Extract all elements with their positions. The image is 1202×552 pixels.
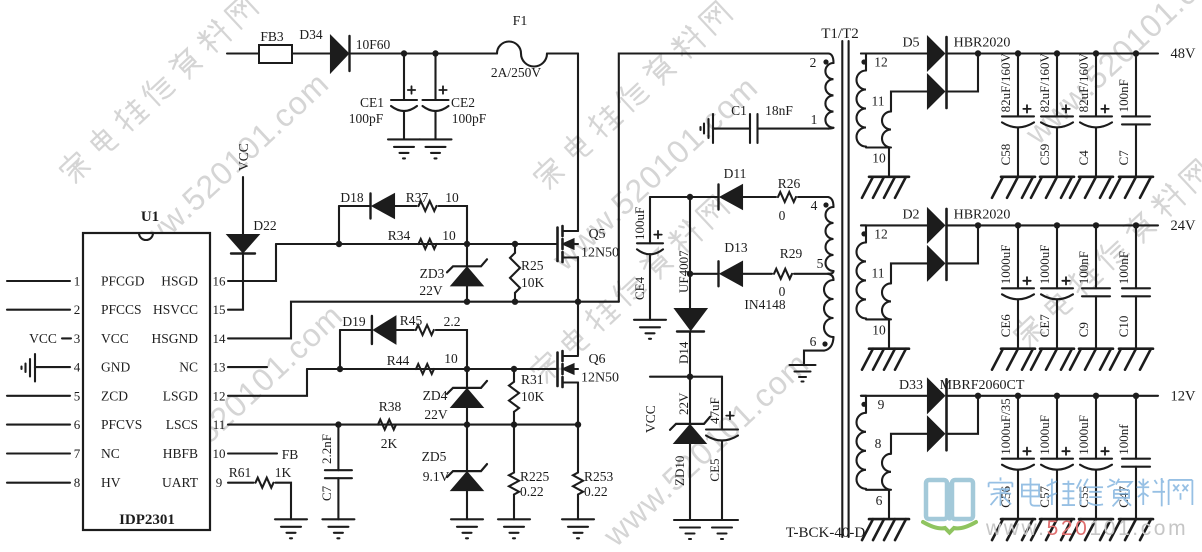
ground below CE1 — [388, 138, 420, 140]
ground below C56 — [1001, 518, 1035, 521]
svg-text:UF4007: UF4007 — [676, 250, 691, 293]
capacitor C7 100nF — [1133, 50, 1139, 56]
capacitor CE4 100uF — [650, 196, 690, 198]
svg-text:48V: 48V — [1171, 46, 1197, 62]
capacitor C47 100nf — [1133, 393, 1139, 399]
diode D19 — [371, 316, 373, 344]
svg-text:10K: 10K — [521, 275, 545, 290]
svg-text:CE4: CE4 — [632, 276, 647, 300]
svg-text:12N50: 12N50 — [581, 371, 619, 386]
wire C1 to ground — [713, 128, 750, 130]
svg-text:1000uF: 1000uF — [1037, 245, 1052, 285]
svg-text:100nF: 100nF — [1116, 251, 1131, 284]
svg-text:HSVCC: HSVCC — [153, 302, 198, 317]
svg-text:LSGD: LSGD — [163, 388, 199, 403]
node D18 branch — [336, 241, 342, 247]
svg-text:0: 0 — [779, 208, 786, 223]
svg-text:100pF: 100pF — [452, 111, 487, 126]
ground below CE5 — [706, 519, 738, 521]
wire Q6 drain to switch node — [577, 302, 579, 355]
wire stub pin 7 — [7, 452, 70, 454]
svg-text:22V: 22V — [419, 283, 443, 298]
wire secondary pin 10 to ground — [888, 148, 890, 177]
svg-text:1000uF: 1000uF — [998, 245, 1013, 285]
ground below C4 — [1079, 176, 1113, 179]
svg-text:18nF: 18nF — [765, 103, 793, 118]
zener ZD4 22V — [466, 369, 468, 388]
transistor Q5 12N50 — [556, 228, 559, 262]
svg-text:2.2nF: 2.2nF — [319, 434, 334, 464]
svg-text:2K: 2K — [381, 436, 398, 451]
svg-text:100uF: 100uF — [632, 207, 647, 240]
wire AC input to FB3 — [227, 52, 259, 54]
svg-text:HSGD: HSGD — [161, 274, 198, 289]
svg-text:D19: D19 — [342, 314, 365, 329]
svg-text:12: 12 — [874, 226, 888, 241]
capacitor C9 100nF — [1093, 222, 1099, 228]
svg-text:U1: U1 — [141, 209, 159, 225]
node secondary pin 9 phase dot — [861, 402, 866, 407]
svg-text:10: 10 — [872, 151, 886, 166]
svg-text:1000uF/35: 1000uF/35 — [998, 398, 1013, 454]
node Q6 source sense — [575, 421, 581, 427]
svg-text:15: 15 — [213, 302, 226, 317]
svg-text:R34: R34 — [388, 228, 411, 243]
svg-text:4: 4 — [811, 198, 818, 213]
svg-text:PFCCS: PFCCS — [101, 302, 142, 317]
svg-text:R31: R31 — [521, 372, 544, 387]
svg-text:D11: D11 — [724, 166, 747, 181]
svg-text:NC: NC — [101, 446, 120, 461]
capacitor C57 1000uF — [1054, 393, 1060, 399]
svg-text:R45: R45 — [400, 313, 423, 328]
wire R37 to corner — [439, 206, 468, 244]
svg-text:11: 11 — [872, 265, 885, 280]
svg-text:R26: R26 — [778, 176, 801, 191]
ground below ZD5 — [451, 518, 483, 520]
svg-text:R225: R225 — [520, 469, 550, 484]
svg-text:C10: C10 — [1116, 316, 1131, 338]
diode D14 UF4007 — [676, 309, 707, 330]
wire 12V output rail — [947, 395, 1159, 397]
capacitor CE1 100pF — [403, 54, 405, 101]
svg-text:1000uF: 1000uF — [1076, 415, 1091, 455]
node primary pin 6 phase dot — [822, 341, 827, 346]
svg-text:R44: R44 — [387, 353, 410, 368]
zener ZD10 22V — [689, 377, 691, 424]
svg-text:22V: 22V — [676, 392, 691, 415]
capacitor CE7 1000uF — [1054, 222, 1060, 228]
resistor R29 0 — [774, 269, 792, 279]
capacitor C56 1000uF/35 — [1015, 393, 1021, 399]
svg-text:100nF: 100nF — [1116, 79, 1131, 112]
svg-text:3: 3 — [74, 331, 81, 346]
svg-text:10: 10 — [442, 228, 456, 243]
node VCC junction — [687, 374, 693, 380]
ground below secondary winding — [869, 347, 909, 350]
svg-text:Q6: Q6 — [588, 352, 605, 367]
wire F1 to Q5 drain — [547, 52, 578, 54]
svg-text:CE6: CE6 — [998, 314, 1013, 338]
ground below R225 — [498, 518, 530, 520]
node ZD5 top — [464, 421, 470, 427]
svg-text:UART: UART — [162, 475, 199, 490]
node primary pin 2 phase dot — [823, 59, 828, 64]
wire secondary pin 10 to ground — [888, 319, 890, 348]
resistor R34 10 — [419, 239, 437, 249]
svg-text:12: 12 — [213, 388, 226, 403]
svg-text:2A/250V: 2A/250V — [491, 65, 542, 80]
svg-text:D2: D2 — [902, 207, 919, 222]
ground below ZD10 — [674, 519, 706, 521]
svg-text:10F60: 10F60 — [356, 37, 391, 52]
wire ground to pin 4 — [35, 366, 70, 368]
svg-text:GND: GND — [101, 360, 130, 375]
svg-text:PFCGD: PFCGD — [101, 274, 145, 289]
ground below secondary winding — [869, 518, 909, 521]
diode D34 10F60 — [331, 37, 348, 72]
svg-text:100nF: 100nF — [1076, 251, 1091, 284]
wire stub pin 2 — [7, 309, 70, 311]
wire pin 9 UART to R61 — [228, 482, 254, 484]
svg-text:82uF/160V: 82uF/160V — [1037, 53, 1052, 113]
capacitor CE6 1000uF — [1015, 222, 1021, 228]
node ZD3 bottom — [464, 299, 470, 305]
transformer primary winding 2-1 — [828, 54, 834, 64]
resistor R44 10 — [416, 364, 434, 374]
wire primary pin 1 to C1 — [758, 128, 829, 130]
transformer secondary winding 9-8-6 — [861, 395, 866, 397]
wire 48V output rail — [947, 52, 1159, 54]
wire stub pin 6 — [7, 424, 70, 426]
svg-text:CE7: CE7 — [1037, 314, 1052, 338]
svg-text:6: 6 — [876, 493, 883, 508]
ground below primary pin 6 — [790, 364, 816, 366]
ground below CE7 — [1040, 347, 1074, 350]
svg-text:HBFB: HBFB — [163, 446, 198, 461]
svg-text:100pF: 100pF — [349, 111, 384, 126]
svg-text:9.1V: 9.1V — [423, 469, 450, 484]
svg-text:10: 10 — [872, 322, 886, 337]
node secondary pin 12 phase dot — [861, 231, 866, 236]
node rail to lower diode — [975, 222, 981, 228]
svg-text:T1/T2: T1/T2 — [821, 26, 859, 42]
resistor R38 2K — [378, 420, 396, 430]
wire VCC to D22 — [242, 177, 244, 235]
diode D13 IN4148 — [717, 261, 719, 286]
svg-text:1: 1 — [74, 274, 81, 289]
wire D19 to R45 — [395, 329, 414, 331]
IC U1 IDP2301 — [83, 233, 210, 530]
svg-text:CE2: CE2 — [451, 95, 475, 110]
svg-text:IN4148: IN4148 — [744, 297, 785, 312]
svg-text:R37: R37 — [406, 190, 429, 205]
node R225 top — [511, 421, 517, 427]
wire D14 to VCC node — [689, 332, 691, 377]
svg-text:22V: 22V — [424, 407, 448, 422]
svg-text:ZCD: ZCD — [101, 388, 128, 403]
svg-text:ZD3: ZD3 — [420, 266, 445, 281]
wire rail to lower diode cathode — [947, 225, 979, 263]
wire primary pin 6 to ground — [804, 351, 824, 365]
svg-text:1K: 1K — [275, 465, 292, 480]
node rail to lower diode — [975, 50, 981, 56]
ferrite bead FB3 — [259, 45, 292, 63]
svg-text:10: 10 — [445, 190, 459, 205]
svg-text:R25: R25 — [521, 258, 544, 273]
wire R29 to primary pin 5 — [794, 273, 829, 275]
svg-text:IDP2301: IDP2301 — [119, 512, 175, 528]
wire aux row D13 — [690, 273, 719, 275]
ground below C57 — [1040, 518, 1074, 521]
svg-text:R38: R38 — [379, 399, 402, 414]
diode D2 HBR2020 — [861, 224, 928, 226]
svg-text:FB: FB — [282, 447, 299, 462]
wire D11 to R26 — [742, 196, 776, 198]
svg-text:D34: D34 — [299, 27, 322, 42]
svg-text:ZD4: ZD4 — [423, 388, 448, 403]
ground below C55 — [1079, 518, 1113, 521]
node D19 branch — [337, 366, 343, 372]
capacitor CE2 100pF — [434, 54, 436, 101]
resistor R225 0.22 — [513, 425, 515, 462]
svg-text:D22: D22 — [253, 218, 276, 233]
resistor R26 0 — [778, 192, 796, 202]
ground below C9 — [1079, 347, 1113, 350]
svg-text:VCC: VCC — [29, 331, 57, 346]
svg-text:2: 2 — [74, 302, 81, 317]
svg-text:VCC: VCC — [236, 143, 251, 171]
wire pin 11 LSCS row — [228, 424, 578, 426]
ground below C7 — [322, 518, 354, 520]
svg-text:LSCS: LSCS — [166, 417, 198, 432]
zener ZD5 9.1V — [466, 425, 468, 472]
svg-text:HBR2020: HBR2020 — [954, 207, 1011, 222]
capacitor C58 82uF/160V — [1015, 50, 1021, 56]
svg-text:8: 8 — [74, 475, 81, 490]
diode D22 — [228, 235, 258, 252]
diode D11 — [717, 185, 719, 210]
svg-text:FB3: FB3 — [260, 29, 284, 44]
svg-text:F1: F1 — [513, 14, 528, 29]
svg-text:D5: D5 — [902, 36, 919, 51]
capacitor C4 82uF/160V — [1093, 50, 1099, 56]
svg-text:MBRF2060CT: MBRF2060CT — [940, 378, 1025, 393]
svg-text:CE1: CE1 — [360, 95, 384, 110]
svg-text:CE5: CE5 — [707, 458, 722, 481]
svg-text:C58: C58 — [998, 144, 1013, 166]
svg-text:12N50: 12N50 — [581, 246, 619, 261]
transistor Q6 12N50 — [556, 353, 559, 387]
svg-text:6: 6 — [74, 417, 81, 432]
node R31 top — [511, 366, 517, 372]
wire aux node vertical — [689, 197, 691, 309]
svg-text:16: 16 — [213, 274, 227, 289]
wire R44 row — [307, 368, 556, 370]
svg-text:14: 14 — [213, 331, 227, 346]
svg-text:10: 10 — [213, 446, 226, 461]
ground below C10 — [1119, 347, 1153, 350]
node CE2 junction — [432, 50, 438, 56]
resistor R25 10K — [510, 253, 520, 293]
svg-text:6: 6 — [810, 334, 817, 349]
svg-text:1000uF: 1000uF — [1037, 415, 1052, 455]
svg-text:R29: R29 — [780, 246, 803, 261]
svg-text:11: 11 — [213, 417, 226, 432]
wire pin 13 NC stub — [228, 366, 267, 368]
svg-text:D13: D13 — [724, 240, 747, 255]
zener ZD3 22V — [466, 244, 468, 266]
svg-text:2.2: 2.2 — [444, 314, 461, 329]
svg-text:PFCVS: PFCVS — [101, 417, 142, 432]
ground below C47 — [1119, 518, 1153, 521]
svg-text:C59: C59 — [1037, 144, 1052, 166]
svg-text:10: 10 — [444, 351, 458, 366]
svg-text:D18: D18 — [340, 190, 363, 205]
fuse F1 2A/250V — [497, 42, 547, 67]
wire Q5 source to switch node — [577, 257, 579, 302]
diode D5 HBR2020 — [861, 52, 928, 54]
resistor R31 10K — [509, 382, 519, 412]
wire switch node to primary pin 2 — [619, 54, 828, 302]
svg-text:R61: R61 — [229, 465, 252, 480]
node secondary pin 12 phase dot — [861, 59, 866, 64]
svg-text:12: 12 — [874, 55, 888, 70]
wire VCC to pin 3 — [62, 337, 71, 339]
svg-text:HV: HV — [101, 475, 121, 490]
svg-text:D33: D33 — [899, 378, 923, 393]
svg-text:0: 0 — [779, 284, 786, 299]
wire D19 branch up — [339, 330, 341, 369]
wire D22 to pin 15 HSVCC — [228, 255, 243, 310]
ground below secondary winding — [869, 176, 909, 179]
resistor R253 0.22 — [577, 425, 579, 462]
ground below R61 — [275, 518, 307, 520]
wire VCC node row — [650, 376, 722, 378]
ground below C7 — [1119, 176, 1153, 179]
ground below C58 — [1001, 176, 1035, 179]
wire rail to lower diode cathode — [947, 54, 979, 92]
capacitor C10 100nF — [1133, 222, 1139, 228]
svg-text:12V: 12V — [1171, 388, 1197, 404]
svg-text:47uF: 47uF — [707, 397, 722, 424]
capacitor CE5 47uF — [721, 377, 723, 430]
wire D13 to R29 — [742, 273, 772, 275]
wire R61 to ground — [276, 483, 292, 520]
svg-text:C1: C1 — [731, 103, 747, 118]
node rail to lower diode — [975, 393, 981, 399]
wire D19 row left — [340, 329, 372, 331]
wire rail to lower diode cathode — [947, 396, 979, 434]
wire stub pin 1 — [7, 280, 70, 282]
ground below CE6 — [1001, 347, 1035, 350]
svg-text:D14: D14 — [676, 341, 691, 364]
svg-text:82uF/160V: 82uF/160V — [1076, 53, 1091, 113]
node ZD4 top — [464, 366, 470, 372]
wire R34 row — [276, 243, 556, 245]
wire pin 14 HSGND to switch node — [228, 302, 619, 339]
svg-text:HBR2020: HBR2020 — [954, 36, 1011, 51]
capacitor C1 18nF — [749, 114, 751, 143]
svg-text:9: 9 — [216, 475, 223, 490]
ground below R253 — [562, 518, 594, 520]
svg-text:0.22: 0.22 — [520, 484, 544, 499]
wire R45 to corner — [436, 330, 467, 369]
wire pin 16 HSGD to R34 row — [228, 244, 276, 281]
capacitor C7 2.2nF — [337, 425, 339, 471]
wire R26 to primary pin 4 — [798, 196, 828, 198]
ground below C59 — [1040, 176, 1074, 179]
transformer primary winding 4-5-6 — [828, 197, 834, 207]
wire 24V output rail — [947, 224, 1159, 226]
logo — [923, 480, 976, 533]
svg-text:VCC: VCC — [101, 331, 129, 346]
svg-text:10K: 10K — [521, 389, 545, 404]
svg-text:82uF/160V: 82uF/160V — [998, 53, 1013, 113]
svg-text:T-BCK-40-D: T-BCK-40-D — [786, 525, 866, 541]
wire D18 branch up — [338, 206, 340, 244]
wire pin 12 LSGD to R44 row — [228, 369, 307, 396]
wire D18 row left — [339, 205, 371, 207]
wire secondary pin 6 to ground — [888, 490, 890, 519]
svg-text:C7: C7 — [319, 485, 334, 501]
svg-text:HSGND: HSGND — [151, 331, 198, 346]
wire aux node row D11 — [690, 196, 719, 198]
wire D34 to F1 — [351, 52, 497, 54]
wire FB3 to D34 — [292, 52, 331, 54]
capacitor C55 1000uF — [1093, 393, 1099, 399]
wire stub pin 5 — [7, 395, 70, 397]
svg-text:5: 5 — [74, 388, 81, 403]
svg-text:ZD10: ZD10 — [672, 456, 687, 486]
transformer secondary winding 12-11-10 — [861, 52, 866, 54]
svg-text:11: 11 — [872, 94, 885, 109]
node R25 top — [512, 241, 518, 247]
ground below CE4 — [634, 319, 666, 321]
svg-text:7: 7 — [74, 446, 81, 461]
ground below CE2 — [420, 138, 452, 140]
ground at pin 4 — [34, 354, 36, 382]
svg-text:100nf: 100nf — [1116, 424, 1131, 455]
capacitor C59 82uF/160V — [1054, 50, 1060, 56]
svg-text:8: 8 — [875, 436, 882, 451]
svg-text:R253: R253 — [584, 469, 614, 484]
node C7 branch — [335, 421, 341, 427]
node CE1 junction — [401, 50, 407, 56]
node half-bridge switch node — [575, 299, 581, 305]
transformer secondary winding 12-11-10 — [861, 224, 866, 226]
wire pin 10 HBFB to FB — [228, 452, 277, 454]
svg-text:5: 5 — [817, 256, 824, 271]
node primary pin 4 phase dot — [823, 202, 828, 207]
svg-text:VCC: VCC — [643, 405, 658, 433]
node ZD3 top — [464, 241, 470, 247]
wire D18 to R37 — [394, 205, 417, 207]
svg-text:Q5: Q5 — [588, 227, 605, 242]
svg-text:C55: C55 — [1076, 486, 1091, 508]
svg-text:NC: NC — [179, 360, 198, 375]
node R25 bottom — [512, 299, 518, 305]
node D13 junction — [687, 271, 693, 277]
svg-text:www.520101.com: www.520101.com — [985, 517, 1188, 540]
resistor R45 2.2 — [416, 325, 434, 335]
resistor R61 1K — [256, 478, 274, 488]
diode D18 — [369, 194, 371, 219]
svg-text:0.22: 0.22 — [584, 484, 608, 499]
svg-text:C7: C7 — [1116, 150, 1131, 166]
diode D33 MBRF2060CT — [861, 395, 928, 397]
resistor R37 10 — [419, 201, 437, 211]
